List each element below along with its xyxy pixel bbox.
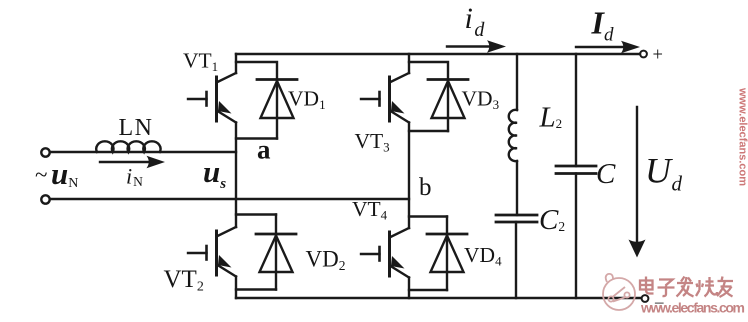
arrow Ud	[629, 107, 646, 258]
svg-text:VD1: VD1	[288, 87, 326, 113]
wire bottom dc rail	[236, 297, 641, 299]
transistor VT4 (IGBT)	[361, 228, 409, 278]
svg-text:+: +	[653, 46, 663, 66]
svg-text:VT2: VT2	[164, 266, 204, 295]
svg-text:a: a	[257, 135, 271, 165]
svg-text:www.elecfans.com: www.elecfans.com	[737, 87, 748, 186]
transistor VT3 (IGBT)	[361, 73, 409, 123]
terminal output plus	[640, 51, 647, 58]
svg-text:Id: Id	[591, 5, 614, 46]
svg-text:www.elecfans.com: www.elecfans.com	[640, 300, 745, 316]
wire right leg (b-phase leg vertical)	[408, 54, 410, 298]
svg-text:VD4: VD4	[464, 243, 502, 269]
svg-text:VT3: VT3	[355, 129, 390, 155]
svg-text:~uN: ~uN	[35, 156, 78, 191]
svg-text:C2: C2	[539, 204, 565, 236]
terminal left bottom	[41, 195, 49, 203]
transistor VT1 (IGBT)	[188, 73, 236, 123]
svg-text:VD3: VD3	[462, 87, 500, 113]
svg-text:VD2: VD2	[306, 247, 346, 274]
svg-text:VT4: VT4	[352, 197, 388, 223]
wire ac top (source to node a)	[51, 151, 236, 153]
terminal left top	[41, 148, 49, 156]
svg-text:L2: L2	[539, 102, 563, 134]
wire left leg (a-phase leg vertical)	[235, 54, 237, 298]
arrow Id	[576, 41, 640, 53]
svg-text:Ud: Ud	[645, 151, 683, 196]
arrow id	[447, 40, 506, 52]
svg-text:C: C	[596, 158, 616, 190]
inductor L2	[509, 54, 517, 215]
arrow iN	[100, 156, 165, 168]
svg-text:b: b	[419, 174, 432, 201]
svg-text:iN: iN	[126, 164, 143, 190]
diode VD1	[236, 62, 297, 139]
svg-text:id: id	[465, 2, 486, 41]
terminal output minus	[642, 295, 649, 302]
diode VD4	[409, 217, 467, 291]
svg-text:VT1: VT1	[183, 49, 218, 75]
capacitor C2	[496, 215, 537, 298]
watermark text chinese	[640, 277, 733, 298]
inductor LN	[96, 141, 160, 152]
watermark logo bottom right	[603, 274, 635, 310]
capacitor C	[556, 54, 596, 298]
wire top dc rail	[236, 53, 640, 55]
diode VD2	[236, 215, 296, 290]
transistor VT2 (IGBT)	[188, 227, 236, 277]
svg-text:us: us	[203, 154, 226, 192]
diode VD3	[409, 62, 468, 131]
wire ac bottom (source to node b)	[51, 198, 409, 200]
svg-text:LN: LN	[119, 115, 154, 141]
